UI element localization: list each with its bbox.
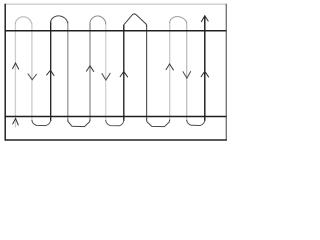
conductor 3 — [50, 22, 52, 122]
terminal arrow (winding exit) above top rail on c11 — [201, 16, 208, 22]
bottom end-loop C (c6-c7) — [106, 120, 124, 126]
top end-loop 1 (c1-c2) — [15, 17, 32, 24]
current arrow up on c7 — [120, 71, 128, 77]
conductor 5 — [89, 23, 91, 121]
top end-loop 3 (c5-c6) — [90, 16, 106, 24]
conductor 8 — [146, 25, 148, 121]
current arrow up on c9 — [166, 64, 174, 70]
border top — [5, 3, 227, 5]
current arrow up on c3 — [46, 70, 54, 76]
bottom end-loop E (c10-c11) — [187, 120, 205, 126]
current arrow up on c11 (mid) — [201, 71, 209, 77]
border bottom — [5, 139, 227, 141]
current arrow down on c10 — [183, 71, 191, 78]
current arrow down on c6 — [102, 73, 111, 80]
top rail line — [5, 30, 226, 32]
bottom end-loop A (c2-c3) — [32, 120, 51, 126]
current arrow down on c2 — [28, 74, 37, 80]
top end-loop 5 (c9-c10) — [170, 17, 187, 24]
border right — [225, 4, 227, 141]
terminal arrow (winding entry) below bottom rail on c1 — [13, 119, 19, 126]
conductor 1 — [14, 23, 16, 127]
conductor 2 — [31, 23, 33, 121]
border left — [4, 4, 6, 141]
conductor 6 — [105, 23, 107, 121]
current arrow up on c5 — [86, 66, 94, 72]
current arrow up on c1 — [12, 63, 18, 69]
bottom end-loop D (c8-c9), wide flat bottom — [147, 120, 170, 127]
conductor 10 — [186, 22, 188, 121]
conductor 7 — [123, 25, 125, 121]
conductor 4 — [67, 22, 69, 121]
top end-loop 4 (c7-c8), taller pointed arch — [124, 14, 147, 27]
top end-loop 2 (c3-c4) — [51, 16, 68, 23]
conductor 9 — [169, 22, 171, 121]
bottom end-loop B (c4-c5), wide flat bottom — [68, 120, 90, 127]
conductor 11 — [204, 16, 206, 121]
bottom rail line — [5, 116, 226, 118]
